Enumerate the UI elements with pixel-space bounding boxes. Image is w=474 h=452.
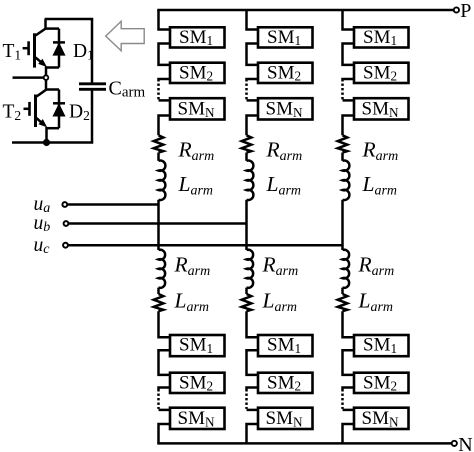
- wire: phase a upper arm, SMN to resistor: [159, 116, 171, 136]
- wire: phase a upper arm, resistor to inductor: [157, 153, 160, 161]
- wire: phase a upper arm, bus to SM1: [159, 10, 171, 30]
- wire: dashed continuation (more SMs), phase b lower arm: [245, 394, 248, 409]
- submodule SM2 upper arm phase a: [170, 62, 225, 83]
- wire: phase b lower arm, zigzag to SM1: [247, 311, 259, 337]
- wire: phase a leg midsection (AC node): [157, 200, 160, 250]
- wire: SM detail right vertical upper (to capacitor): [91, 19, 94, 83]
- wire: dashed continuation (more SMs), phase c lower arm: [341, 394, 344, 409]
- wire: phase c upper arm, SM2 exit stub: [343, 79, 355, 82]
- submodule SM1 upper arm phase a: [170, 27, 225, 48]
- svg-text:P: P: [460, 0, 471, 22]
- resistor Rarm upper arm phase b: [242, 135, 252, 152]
- inductor (coil) labelled Rarm lower arm phase b: [247, 250, 254, 288]
- wire: phase b lower arm, SM1 to SM2: [247, 350, 259, 375]
- wire: SM detail right vertical lower (from capacitor): [91, 90, 94, 143]
- wire: phase b upper arm, SMN entry stub: [247, 99, 259, 102]
- terminal uc: [63, 243, 68, 248]
- wire: SM detail top rail: [45, 18, 94, 21]
- wire: phase a lower arm, SM1 to SM2: [159, 350, 171, 375]
- wire: phase b lower arm, SM2 exit stub: [247, 388, 259, 392]
- wire: ua to phase a node: [67, 203, 158, 206]
- wire: phase b lower arm, SMN entry stub: [247, 409, 259, 412]
- transistor Q T2 (IGBT): [24, 90, 47, 127]
- node: SM midpoint terminal: [44, 75, 49, 80]
- wire: phase b lower arm, SMN to bottom bus: [247, 424, 259, 443]
- inductor (coil) labelled Rarm lower arm phase c: [343, 250, 350, 288]
- wire: phase c lower arm, SMN entry stub: [343, 409, 355, 412]
- terminal ua: [62, 202, 67, 207]
- resistor (zigzag) labelled Larm lower arm phase b: [242, 294, 252, 311]
- submodule SM1 upper arm phase c: [354, 27, 409, 48]
- wire: phase c upper arm, SM1 to SM2: [343, 44, 355, 65]
- wire: phase b upper arm, SMN to resistor: [247, 116, 259, 136]
- submodule SM2 lower arm phase c: [354, 372, 409, 393]
- wire: T2 emitter to bottom rail: [45, 127, 48, 143]
- diode D1: [46, 29, 66, 68]
- resistor (zigzag) labelled Larm lower arm phase a: [154, 294, 164, 311]
- submodule SMN lower arm phase a: [170, 408, 225, 430]
- diode D2: [46, 90, 65, 129]
- submodule SM1 lower arm phase b: [258, 335, 313, 357]
- wire: dashed continuation (more SMs), phase a lower arm: [157, 394, 160, 409]
- wire: phase b upper arm, SM1 to SM2: [247, 44, 259, 65]
- submodule SMN upper arm phase a: [170, 98, 225, 120]
- wire: phase c upper arm, resistor to inductor: [341, 153, 344, 161]
- wire: SM detail bottom rail: [12, 141, 93, 144]
- submodule SMN upper arm phase c: [354, 98, 409, 120]
- submodule SMN lower arm phase c: [354, 408, 409, 430]
- wire: dashed continuation (more SMs), phase a upper arm: [157, 84, 160, 100]
- capacitor Carm plates: [79, 84, 106, 90]
- wire: dashed continuation (more SMs), phase c upper arm: [341, 84, 344, 100]
- wire: phase a upper arm, SM2 exit stub: [159, 79, 171, 82]
- submodule SM1 lower arm phase c: [354, 335, 409, 357]
- wire: phase c upper arm, SMN entry stub: [343, 99, 355, 102]
- wire: phase c lower arm, SM2 exit stub: [343, 388, 355, 392]
- wire: negative DC bus (bottom): [157, 442, 451, 445]
- terminal N: [452, 441, 457, 446]
- wire: phase a lower arm, SMN entry stub: [159, 409, 171, 412]
- wire: phase b upper arm, SM2 exit stub: [247, 79, 259, 82]
- wire: phase b upper arm, resistor to inductor: [245, 153, 248, 161]
- wire: phase b leg midsection (AC node): [245, 200, 248, 250]
- inductor (coil) labelled Rarm lower arm phase a: [159, 250, 166, 288]
- transistor Q T1 (IGBT): [23, 19, 47, 68]
- wire: phase a lower arm, SMN to bottom bus: [159, 424, 171, 443]
- terminal ub: [64, 221, 69, 226]
- wire: dashed continuation (more SMs), phase b upper arm: [245, 84, 248, 100]
- resistor Rarm upper arm phase a: [154, 135, 164, 152]
- submodule SM2 lower arm phase a: [170, 372, 225, 393]
- wire: phase c upper arm, bus to SM1: [343, 10, 355, 30]
- submodule SM1 lower arm phase a: [170, 335, 225, 357]
- resistor Rarm upper arm phase c: [338, 135, 348, 152]
- wire: ub to phase b node: [68, 222, 246, 225]
- wire: T1 emitter to midpoint node: [45, 66, 48, 75]
- wire: midpoint to T2 collector: [45, 80, 48, 90]
- wire: phase c lower arm, zigzag to SM1: [343, 311, 355, 337]
- wire: uc to phase c node: [68, 244, 343, 247]
- wire: phase a lower arm, SM2 exit stub: [159, 388, 171, 392]
- submodule SM2 upper arm phase b: [258, 62, 313, 83]
- arrow: pointer from main circuit to SM detail: [106, 21, 145, 51]
- wire: phase c lower arm, SM1 to SM2: [343, 350, 355, 375]
- wire: phase a lower arm, zigzag to SM1: [159, 311, 171, 337]
- wire: phase a upper arm, SM1 to SM2: [159, 44, 171, 65]
- junction dot on bottom rail: [43, 139, 49, 145]
- wire: phase c upper arm, SMN to resistor: [343, 116, 355, 136]
- inductor Larm upper arm phase a: [159, 161, 166, 201]
- submodule SM2 lower arm phase b: [258, 372, 313, 393]
- wire: phase c leg midsection (AC node): [341, 200, 344, 250]
- submodule SMN upper arm phase b: [258, 98, 313, 120]
- wire: phase a upper arm, SMN entry stub: [159, 99, 171, 102]
- wire: phase a lower arm, coil to zigzag: [157, 288, 160, 294]
- wire: phase b upper arm, bus to SM1: [247, 10, 259, 30]
- wire: phase c lower arm, coil to zigzag: [341, 288, 344, 294]
- submodule SMN lower arm phase b: [258, 408, 313, 430]
- wire: phase c lower arm, SMN to bottom bus: [343, 424, 355, 443]
- inductor Larm upper arm phase c: [343, 161, 350, 201]
- svg-text:N: N: [458, 434, 472, 452]
- wire: positive DC bus (top): [157, 9, 453, 12]
- submodule SM1 upper arm phase b: [258, 27, 313, 48]
- terminal P: [454, 7, 459, 12]
- resistor (zigzag) labelled Larm lower arm phase c: [338, 294, 348, 311]
- wire: phase b lower arm, coil to zigzag: [245, 288, 248, 294]
- submodule SM2 upper arm phase c: [354, 62, 409, 83]
- inductor Larm upper arm phase b: [247, 161, 254, 201]
- wire: SM output lead upper: [13, 76, 44, 79]
